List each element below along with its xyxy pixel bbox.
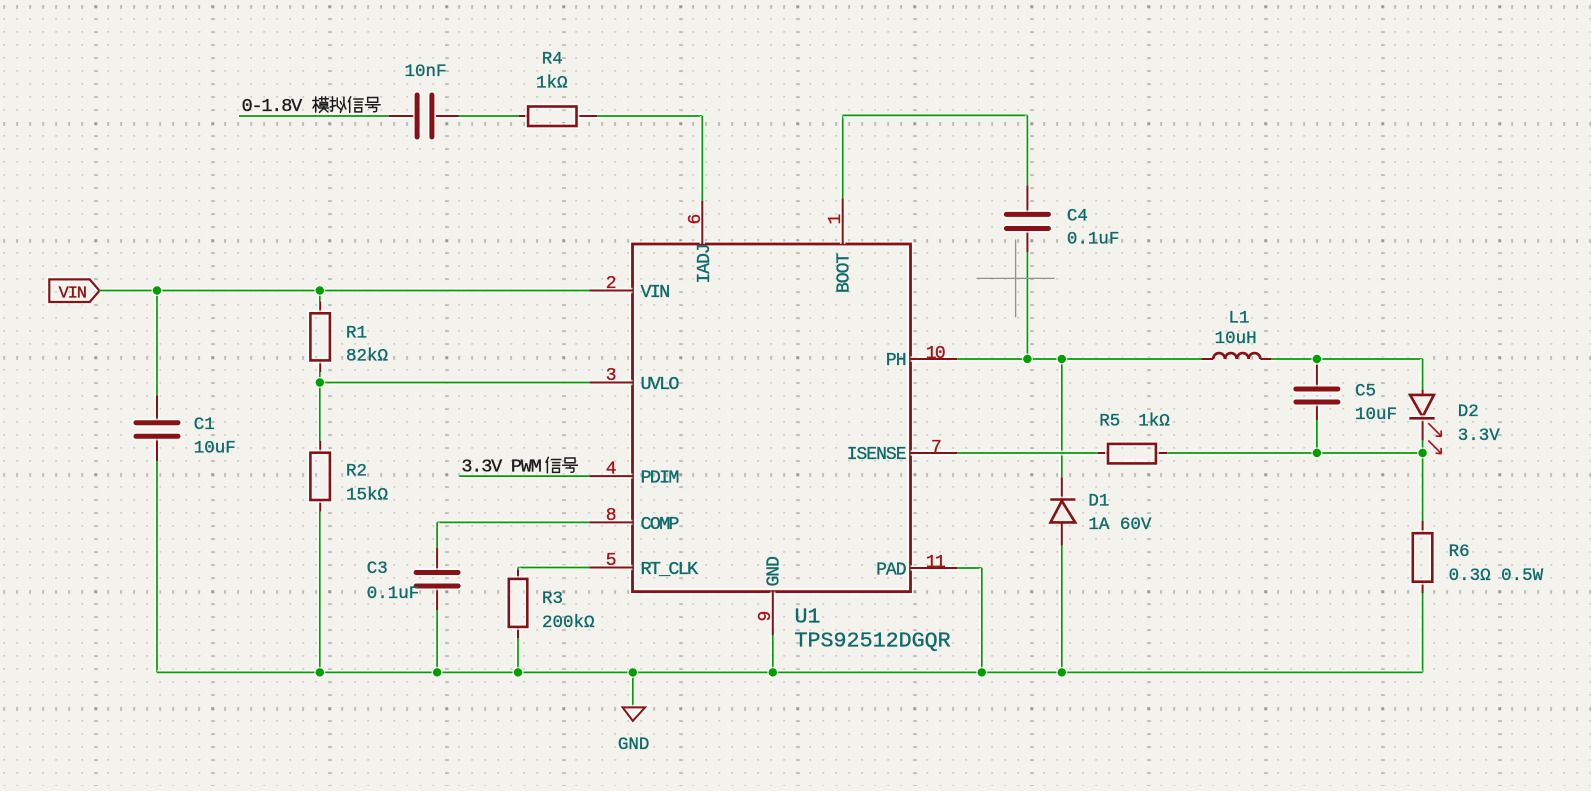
svg-text:5: 5 <box>606 551 616 571</box>
power label VIN <box>49 279 99 303</box>
resistor R1 82k <box>310 302 330 373</box>
wire <box>1420 593 1425 672</box>
node C4-PH junction <box>1022 353 1033 364</box>
capacitor C1 10uF <box>136 396 178 462</box>
wire <box>1314 359 1319 365</box>
svg-text:PDIM: PDIM <box>641 468 679 489</box>
wire <box>1314 420 1319 453</box>
svg-text:D2: D2 <box>1458 402 1479 422</box>
svg-text:6: 6 <box>686 215 706 225</box>
pin 8 COMP <box>589 520 632 525</box>
svg-text:C4: C4 <box>1067 206 1088 226</box>
svg-text:C3: C3 <box>367 559 388 579</box>
svg-text:UVLO: UVLO <box>641 374 680 395</box>
wire <box>630 672 635 707</box>
svg-text:COMP: COMP <box>641 514 680 535</box>
svg-text:VIN: VIN <box>59 285 86 304</box>
svg-text:1A 60V: 1A 60V <box>1088 515 1152 535</box>
svg-text:L1: L1 <box>1229 309 1250 329</box>
wire <box>459 113 520 118</box>
svg-text:11: 11 <box>926 553 945 573</box>
LED D2 3.3V <box>1409 390 1441 454</box>
svg-text:R6: R6 <box>1449 542 1470 562</box>
wire <box>597 116 702 201</box>
svg-text:GND: GND <box>618 735 650 755</box>
svg-text:R2: R2 <box>346 462 367 482</box>
wire UVLO <box>320 380 590 385</box>
capacitor C4 0.1uF <box>1006 185 1048 252</box>
wire ground rail <box>157 670 1423 675</box>
ground <box>623 707 646 721</box>
svg-text:PH: PH <box>886 351 906 371</box>
svg-text:0.1uF: 0.1uF <box>1067 230 1120 250</box>
wire <box>154 291 159 396</box>
wire <box>1059 546 1064 673</box>
node rail R2 junction <box>314 667 325 678</box>
cursor crosshair <box>977 240 1055 318</box>
IC U1 TPS92512DGQR <box>633 244 911 592</box>
svg-text:BOOT: BOOT <box>835 253 855 293</box>
svg-text:3: 3 <box>606 366 616 386</box>
diode D1 1A 60V <box>1050 477 1075 545</box>
resistor R2 15k <box>310 441 330 512</box>
wire <box>154 461 159 672</box>
wire RT_CLK <box>518 568 589 571</box>
wire ISENSE <box>957 450 1098 455</box>
node VIN-C1 junction <box>151 285 162 296</box>
svg-text:C1: C1 <box>194 415 215 435</box>
node rail PAD junction <box>976 667 987 678</box>
wire <box>1420 453 1425 521</box>
wire VIN bus <box>100 288 590 293</box>
wire <box>435 610 440 672</box>
pin 9 GND <box>770 592 775 636</box>
svg-text:RT_CLK: RT_CLK <box>641 559 700 580</box>
pin 10 PH <box>911 356 958 361</box>
svg-text:7: 7 <box>931 438 941 458</box>
resistor R6 0.3ohm <box>1413 521 1433 593</box>
pin 1 BOOT <box>840 198 845 244</box>
inductor L1 10uH <box>1202 353 1271 359</box>
svg-text:3.3V: 3.3V <box>1458 426 1501 446</box>
svg-text:C5: C5 <box>1355 382 1376 402</box>
svg-text:VIN: VIN <box>641 282 670 303</box>
node C5-ISENSE junction <box>1311 447 1322 458</box>
svg-text:1: 1 <box>826 215 846 225</box>
svg-text:1kΩ: 1kΩ <box>1138 412 1170 432</box>
svg-text:10: 10 <box>926 344 945 364</box>
svg-text:1kΩ: 1kΩ <box>536 74 568 94</box>
svg-text:R3: R3 <box>542 589 563 609</box>
resistor R5 1k <box>1098 444 1167 464</box>
wire BOOT <box>843 115 1028 198</box>
node D2-ISENSE junction <box>1417 447 1428 458</box>
svg-text:R1: R1 <box>346 323 367 343</box>
resistor R3 200k <box>509 570 528 638</box>
node rail GND junction <box>627 667 638 678</box>
wire PAD <box>957 568 981 672</box>
svg-text:R4: R4 <box>542 50 563 70</box>
capacitor C5 10uF <box>1296 365 1338 420</box>
wire PH <box>957 356 1201 361</box>
svg-text:R5: R5 <box>1099 412 1120 432</box>
svg-text:U1: U1 <box>795 605 821 630</box>
svg-text:10uF: 10uF <box>194 438 236 458</box>
wire <box>1025 252 1030 359</box>
capacitor C3 0.1uF <box>416 548 458 610</box>
pin 2 VIN <box>589 288 632 293</box>
pin 6 IADJ <box>700 201 705 244</box>
node rail U1-GND junction <box>767 667 778 678</box>
svg-text:2: 2 <box>606 274 616 294</box>
node L1-C5 junction <box>1311 353 1322 364</box>
wire <box>317 512 322 673</box>
wire COMP <box>437 522 589 548</box>
wire <box>1271 359 1423 390</box>
wire <box>515 638 520 672</box>
pin 4 PDIM <box>589 473 632 478</box>
wire <box>317 372 322 441</box>
node D1-PH junction <box>1056 353 1067 364</box>
svg-text:IADJ: IADJ <box>695 244 715 283</box>
pin 5 RT_CLK <box>589 565 632 570</box>
wire <box>1167 450 1422 455</box>
wire <box>239 113 389 118</box>
node rail D1 junction <box>1056 667 1067 678</box>
node rail R3 junction <box>512 667 523 678</box>
svg-text:4: 4 <box>606 460 616 480</box>
node UVLO junction <box>314 377 325 388</box>
wire PDIM <box>460 474 590 479</box>
node rail C3 junction <box>432 667 443 678</box>
svg-text:0.3Ω 0.5W: 0.3Ω 0.5W <box>1449 566 1544 586</box>
svg-text:0.1uF: 0.1uF <box>367 584 420 604</box>
resistor R4 <box>519 107 597 127</box>
capacitor C2 10nF <box>389 95 459 137</box>
wire <box>770 635 775 672</box>
pin 11 PAD <box>911 565 958 570</box>
CJK text 信号 <box>546 457 577 473</box>
svg-text:TPS92512DGQR: TPS92512DGQR <box>795 629 951 654</box>
wire <box>317 291 322 302</box>
svg-text:15kΩ: 15kΩ <box>346 485 388 505</box>
pin 7 ISENSE <box>911 450 958 455</box>
svg-text:GND: GND <box>765 557 785 587</box>
svg-text:10uF: 10uF <box>1355 405 1397 425</box>
svg-text:8: 8 <box>606 506 616 526</box>
svg-text:ISENSE: ISENSE <box>847 445 906 465</box>
svg-text:200kΩ: 200kΩ <box>542 613 595 633</box>
wire <box>1420 441 1425 453</box>
node VIN-R1 junction <box>314 285 325 296</box>
svg-text:PAD: PAD <box>876 560 906 580</box>
svg-text:9: 9 <box>756 612 776 622</box>
svg-text:D1: D1 <box>1088 492 1109 512</box>
svg-text:10uH: 10uH <box>1215 329 1257 349</box>
CJK text 模拟信号 <box>313 97 380 113</box>
wire <box>1059 359 1064 477</box>
pin 3 UVLO <box>589 380 632 385</box>
svg-text:82kΩ: 82kΩ <box>346 347 388 367</box>
svg-text:10nF: 10nF <box>405 62 447 82</box>
